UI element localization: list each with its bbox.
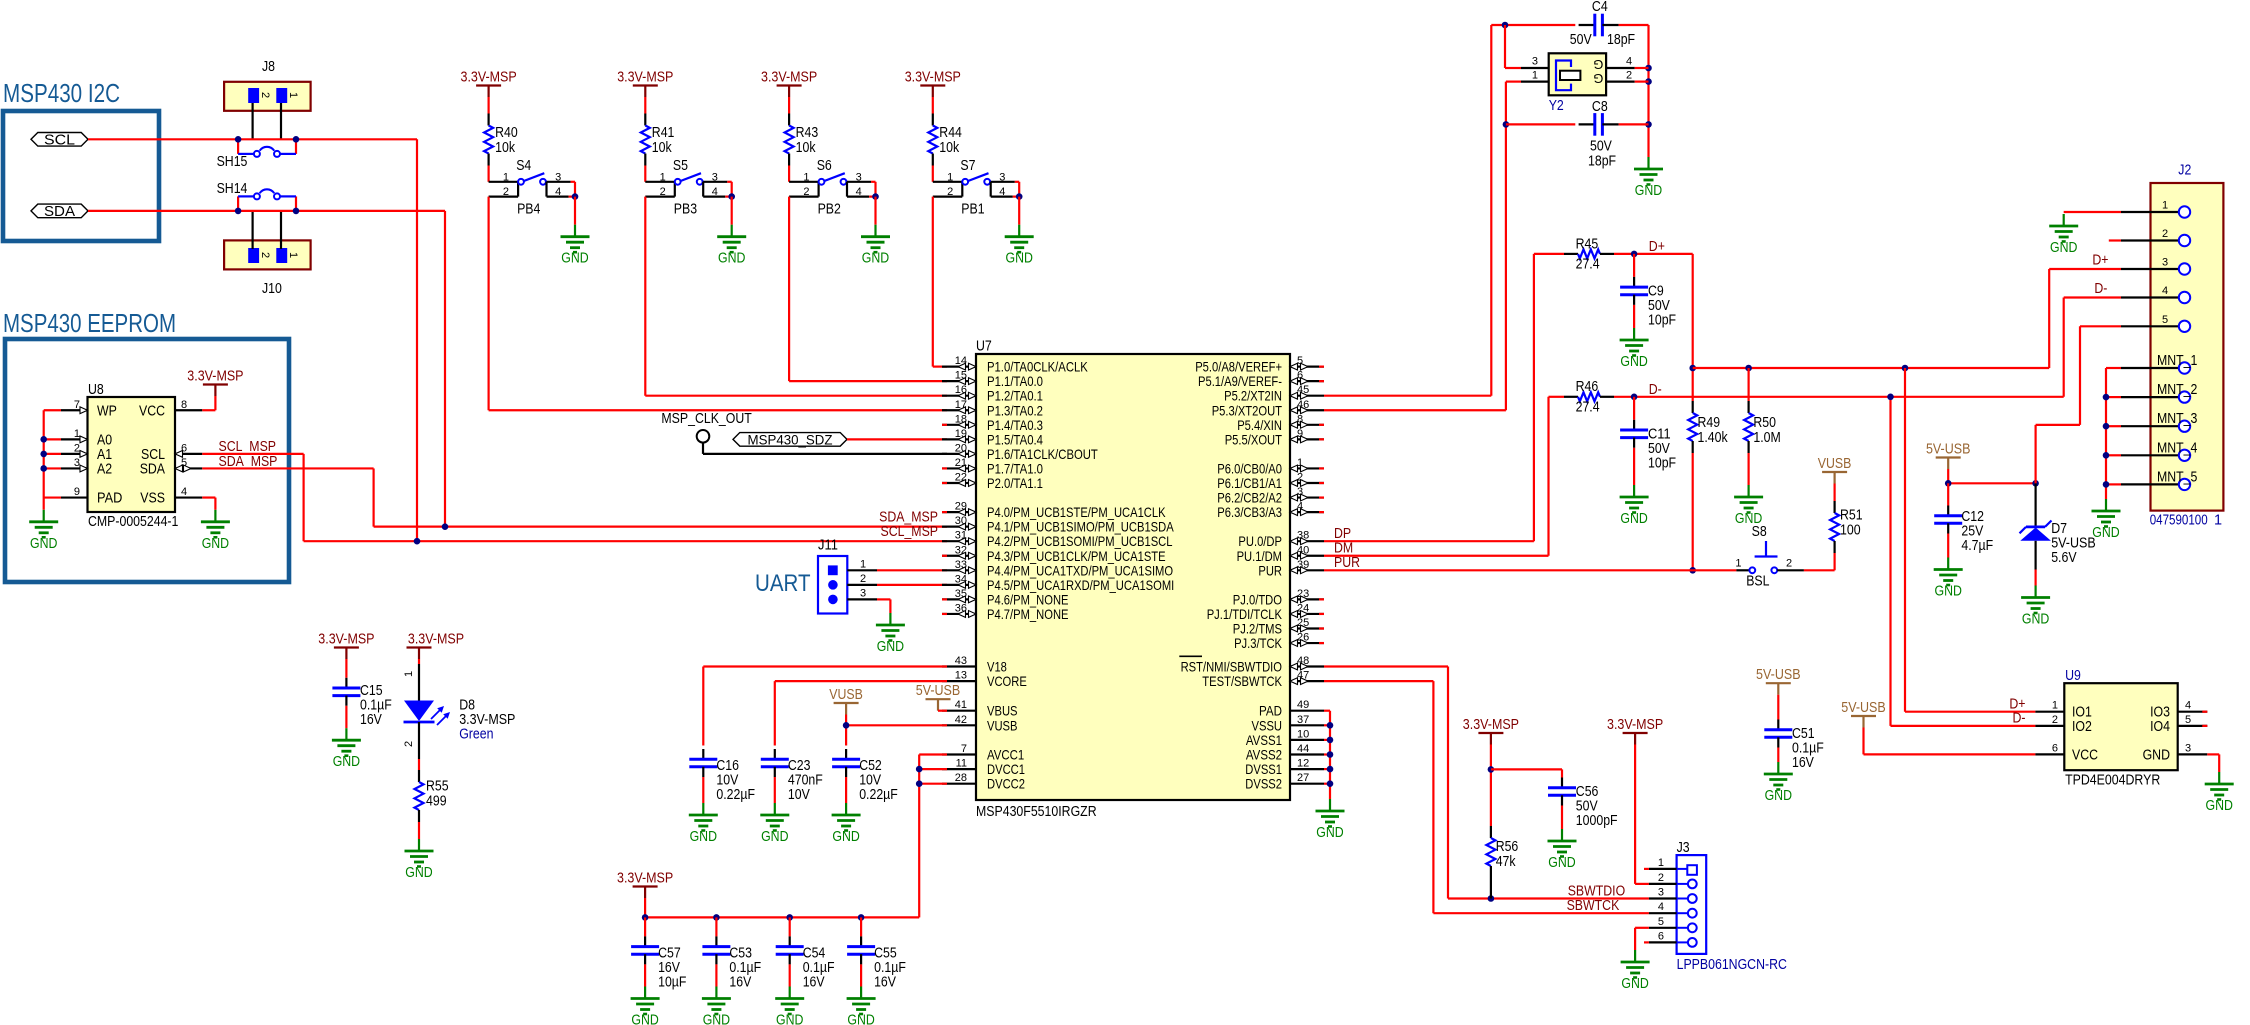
junction VSSU <box>1327 722 1334 729</box>
power 3.3V-MSP at R44 <box>920 84 945 86</box>
shunt SH14 <box>217 181 296 211</box>
svg-text:C11: C11 <box>1648 426 1671 442</box>
junction rail C57 <box>642 914 649 921</box>
wire SBWTDIO net <box>1324 665 1448 667</box>
ground U9 <box>2218 772 2220 784</box>
switch S5 pushbutton PB3 <box>645 158 735 217</box>
svg-text:3.3V-MSP: 3.3V-MSP <box>187 369 243 385</box>
wire R50 gnd <box>1747 453 1749 485</box>
wire VSS rail <box>1324 711 1330 799</box>
svg-text:D+: D+ <box>2092 253 2108 269</box>
wire R41 to switch <box>644 166 646 182</box>
svg-text:6: 6 <box>2052 742 2058 754</box>
svg-text:GND: GND <box>1620 511 1647 527</box>
svg-text:5V-USB: 5V-USB <box>1841 700 1886 716</box>
capacitor C9 10pF <box>1620 254 1676 329</box>
wire C56 gnd <box>1561 806 1563 830</box>
svg-text:12: 12 <box>1297 758 1309 770</box>
wire C8 right <box>1619 123 1649 125</box>
svg-text:GND: GND <box>1935 584 1962 600</box>
junction rail C53 <box>713 914 720 921</box>
IC U8 EEPROM <box>61 382 202 530</box>
svg-text:1: 1 <box>74 428 80 440</box>
svg-text:R50: R50 <box>1753 415 1776 431</box>
junction C56 <box>1488 766 1495 773</box>
EEPROM section box <box>5 339 289 582</box>
svg-text:SH15: SH15 <box>217 154 248 170</box>
svg-text:16V: 16V <box>658 960 680 976</box>
wire D8 to R55 <box>418 759 420 770</box>
wire 5V-USB bus <box>1947 469 1949 483</box>
svg-text:7: 7 <box>74 399 80 411</box>
svg-text:10µF: 10µF <box>658 975 686 991</box>
svg-text:PB1: PB1 <box>961 201 984 217</box>
ground C9 <box>1633 328 1635 340</box>
svg-text:G: G <box>1593 71 1603 86</box>
svg-text:50V: 50V <box>1648 298 1670 314</box>
svg-text:S8: S8 <box>1752 524 1767 540</box>
wire AVCC DVCC rail <box>919 753 947 755</box>
junction R56 SBWTDIO <box>1488 895 1495 902</box>
svg-text:1: 1 <box>1532 70 1538 82</box>
power 3.3V-MSP at D8 <box>407 646 432 648</box>
capacitor C53 <box>702 936 761 990</box>
svg-text:C54: C54 <box>803 946 826 962</box>
svg-text:3: 3 <box>555 171 561 183</box>
wire J2 pin3 D+ <box>2049 268 2121 270</box>
svg-text:GND: GND <box>1006 251 1033 267</box>
svg-text:MNT_2: MNT_2 <box>2157 382 2197 398</box>
svg-text:16V: 16V <box>874 975 896 991</box>
svg-text:R43: R43 <box>796 125 819 141</box>
junction PUR <box>1689 567 1696 574</box>
ground U8 left <box>43 510 45 522</box>
svg-text:5: 5 <box>2185 714 2191 726</box>
svg-text:7: 7 <box>961 743 967 755</box>
J10 pin wires <box>252 211 254 249</box>
svg-text:44: 44 <box>1297 743 1309 755</box>
wire XT2OUT to crystal <box>1324 409 1506 411</box>
svg-text:WP: WP <box>97 403 117 419</box>
svg-text:C12: C12 <box>1961 509 1984 525</box>
LED D8 green <box>403 659 515 759</box>
wire R44 top <box>932 97 934 114</box>
ground C56 <box>1561 829 1563 841</box>
svg-text:IO4: IO4 <box>2150 719 2170 735</box>
wire U8 SCL to U7 <box>202 453 303 455</box>
svg-text:GND: GND <box>2092 525 2119 541</box>
I2C section box <box>3 111 159 241</box>
junction MNT_2 <box>2103 394 2110 401</box>
svg-text:GND: GND <box>2206 798 2233 814</box>
svg-text:1: 1 <box>2162 200 2168 212</box>
svg-text:VSSU: VSSU <box>1252 717 1283 733</box>
wire S7 to ground <box>1018 197 1020 225</box>
svg-text:TPD4E004DRYR: TPD4E004DRYR <box>2065 773 2160 789</box>
junction MNT_3 <box>2103 423 2110 430</box>
svg-text:10V: 10V <box>788 787 810 803</box>
svg-text:GND: GND <box>761 829 788 845</box>
svg-text:5: 5 <box>1658 916 1664 928</box>
svg-text:R45: R45 <box>1576 236 1599 252</box>
ground C53 <box>715 987 717 999</box>
wire PB1 output <box>932 197 934 367</box>
ground J3 <box>1634 950 1636 962</box>
junction SDA b <box>293 208 300 215</box>
wire PB2 output <box>788 197 790 382</box>
junction SCL_MSP <box>414 538 421 545</box>
svg-text:C9: C9 <box>1648 284 1664 300</box>
svg-text:MNT_1: MNT_1 <box>2157 353 2197 369</box>
svg-text:25V: 25V <box>1961 524 1983 540</box>
capacitor C12 4.7uF <box>1934 483 1993 554</box>
wire 5V-USB to VBUS <box>938 710 947 712</box>
power VUSB at C52 <box>834 702 859 704</box>
wire C55 gnd <box>860 964 862 986</box>
wire 3.3V-MSP to rail <box>644 898 646 917</box>
resistor R56 47k <box>1486 826 1518 878</box>
svg-text:CMP-0005244-1: CMP-0005244-1 <box>88 514 178 530</box>
svg-text:2: 2 <box>403 741 415 747</box>
wire XT2IN to crystal <box>1324 395 1491 397</box>
resistor R44 10k <box>928 114 962 166</box>
svg-text:10V: 10V <box>859 773 881 789</box>
svg-text:GND: GND <box>1316 825 1343 841</box>
svg-text:4: 4 <box>1626 56 1632 68</box>
svg-text:5: 5 <box>2162 314 2168 326</box>
svg-text:2: 2 <box>259 92 271 98</box>
svg-text:Green: Green <box>459 727 493 743</box>
wire J11 pin3 gnd <box>877 598 890 600</box>
svg-text:4: 4 <box>1658 901 1664 913</box>
svg-text:4: 4 <box>712 186 718 198</box>
svg-text:1: 1 <box>803 171 809 183</box>
junction AVSS2 <box>1327 751 1334 758</box>
wire V18 to C16 <box>703 665 947 667</box>
U8 ground rail wires <box>44 409 61 411</box>
svg-text:50V: 50V <box>1590 139 1612 155</box>
IC U7 MSP430F5510IRGZR <box>942 339 1324 821</box>
svg-text:0.22µF: 0.22µF <box>716 787 755 803</box>
svg-text:2: 2 <box>1786 557 1792 569</box>
resistor R50 1.0M <box>1744 368 1781 453</box>
wire J2 pin4 D- <box>2064 296 2121 298</box>
svg-text:DVCC1: DVCC1 <box>987 761 1025 777</box>
svg-text:VCC: VCC <box>2072 747 2098 763</box>
svg-text:11: 11 <box>956 758 967 770</box>
svg-text:1: 1 <box>1658 857 1664 869</box>
svg-text:U9: U9 <box>2065 668 2081 684</box>
connector J10 <box>224 240 311 297</box>
ground J2 pin1 <box>2063 214 2065 226</box>
svg-text:1: 1 <box>287 92 299 98</box>
svg-text:R44: R44 <box>939 125 962 141</box>
J8 pin wires <box>252 103 254 139</box>
svg-text:3: 3 <box>999 171 1005 183</box>
wire C15 gnd <box>345 706 347 728</box>
svg-text:8: 8 <box>181 399 187 411</box>
wire R55 gnd <box>418 822 420 839</box>
junction DVSS1 <box>1327 766 1334 773</box>
power 3.3V-MSP at R56 <box>1478 732 1503 734</box>
wire 3.3V to J3 pin2 <box>1634 745 1636 884</box>
svg-text:GND: GND <box>1548 855 1575 871</box>
svg-text:0.1µF: 0.1µF <box>729 960 761 976</box>
wire C51 gnd <box>1777 748 1779 763</box>
svg-text:16V: 16V <box>1792 755 1814 771</box>
ground C55 <box>860 987 862 999</box>
capacitor C16 0.22uF <box>689 749 755 803</box>
svg-text:10k: 10k <box>939 140 960 156</box>
svg-text:A2: A2 <box>97 461 112 477</box>
svg-text:499: 499 <box>426 794 447 810</box>
wire C12 gnd <box>1947 534 1949 558</box>
svg-text:10k: 10k <box>652 140 673 156</box>
svg-text:C52: C52 <box>859 758 882 774</box>
svg-text:1: 1 <box>2214 513 2222 529</box>
junction DVSS2 <box>1327 780 1334 787</box>
svg-text:4: 4 <box>2162 285 2168 297</box>
svg-text:LPPB061NGCN-RC: LPPB061NGCN-RC <box>1677 957 1787 973</box>
no-connect flag MSP_CLK_OUT <box>661 411 947 454</box>
wire C11 gnd <box>1633 448 1635 485</box>
svg-text:P2.0/TA1.1: P2.0/TA1.1 <box>987 475 1043 491</box>
svg-text:S5: S5 <box>673 158 688 174</box>
wire J3 pin5 gnd <box>1635 927 1649 929</box>
svg-text:U8: U8 <box>88 382 104 398</box>
connector J11 UART <box>818 538 877 614</box>
svg-text:GND: GND <box>405 865 432 881</box>
svg-text:GND: GND <box>847 1013 874 1025</box>
svg-text:18pF: 18pF <box>1607 32 1635 48</box>
svg-text:MSP430 I2C: MSP430 I2C <box>3 80 120 108</box>
svg-text:SBWTCK: SBWTCK <box>1567 898 1620 914</box>
svg-text:1: 1 <box>860 558 866 570</box>
svg-text:16V: 16V <box>729 975 751 991</box>
svg-text:2: 2 <box>860 573 866 585</box>
svg-text:2: 2 <box>259 252 271 258</box>
capacitor C11 10pF <box>1620 397 1676 472</box>
ground crystal <box>1647 157 1649 169</box>
svg-text:3: 3 <box>1532 56 1538 68</box>
wire C15 top <box>345 659 347 678</box>
svg-text:GND: GND <box>30 536 57 552</box>
wire J11 pin1 to U7 <box>877 569 947 571</box>
wire C57 gnd <box>644 964 646 986</box>
wire PUR net <box>1324 569 1736 571</box>
junction DVCC2 <box>916 780 923 787</box>
svg-text:5V-USB: 5V-USB <box>1926 442 1971 458</box>
wire 5V-USB to U9 VCC <box>1862 728 1864 755</box>
svg-text:DVSS1: DVSS1 <box>1245 761 1282 777</box>
power 5V-USB at U9 <box>1851 715 1876 717</box>
svg-text:D7: D7 <box>2051 521 2067 537</box>
ground C52 <box>845 803 847 815</box>
wire D7 gnd <box>2034 570 2036 586</box>
svg-text:50V: 50V <box>1570 32 1592 48</box>
svg-text:GND: GND <box>202 536 229 552</box>
svg-text:PUR: PUR <box>1334 555 1360 571</box>
svg-text:10k: 10k <box>796 140 817 156</box>
svg-text:28: 28 <box>955 772 967 784</box>
wire R43 to switch <box>788 166 790 182</box>
svg-text:27.4: 27.4 <box>1576 399 1600 415</box>
svg-text:50V: 50V <box>1576 799 1598 815</box>
wire C53 gnd <box>715 964 717 986</box>
junction DVCC1 <box>916 766 923 773</box>
svg-text:G: G <box>1593 57 1603 72</box>
junction D+ bus <box>1689 365 1696 372</box>
svg-text:U7: U7 <box>976 339 992 355</box>
port flag SDA <box>31 204 88 218</box>
svg-text:1: 1 <box>660 171 666 183</box>
svg-text:AVCC1: AVCC1 <box>987 747 1024 763</box>
svg-text:4: 4 <box>856 186 862 198</box>
switch S7 pushbutton PB1 <box>933 158 1023 217</box>
svg-text:R51: R51 <box>1840 508 1863 524</box>
ground J11 <box>889 613 891 625</box>
capacitor C4 18pF <box>1570 0 1635 48</box>
svg-text:MSP430_SDZ: MSP430_SDZ <box>748 431 833 447</box>
IC U9 TPD4E004DRYR <box>2035 668 2207 789</box>
ground R50 <box>1747 485 1749 497</box>
svg-text:PUR: PUR <box>1258 562 1282 578</box>
capacitor C54 <box>776 936 835 990</box>
svg-text:13: 13 <box>955 670 967 682</box>
junction crystal pin2 <box>1645 78 1652 85</box>
svg-text:C15: C15 <box>360 683 383 699</box>
svg-text:4: 4 <box>181 486 187 498</box>
switch S4 pushbutton PB4 <box>489 158 579 217</box>
svg-text:J10: J10 <box>262 281 282 297</box>
ground C11 <box>1633 485 1635 497</box>
svg-text:2: 2 <box>74 442 80 454</box>
svg-text:1.40k: 1.40k <box>1698 430 1729 446</box>
svg-text:PB3: PB3 <box>674 201 697 217</box>
junction R50 top <box>1745 365 1752 372</box>
wire J2 pin2 stub <box>2109 239 2121 241</box>
power 5V-USB at VBUS <box>926 698 951 700</box>
svg-text:C8: C8 <box>1592 99 1608 115</box>
svg-text:DVSS2: DVSS2 <box>1245 776 1282 792</box>
svg-text:3: 3 <box>74 457 80 469</box>
ground C54 <box>789 987 791 999</box>
wire R40 to switch <box>488 166 490 182</box>
svg-text:9: 9 <box>74 486 80 498</box>
junction MNT_4 <box>2103 452 2110 459</box>
junction SDA_MSP <box>442 523 449 530</box>
svg-text:GND: GND <box>1621 976 1648 992</box>
svg-text:C51: C51 <box>1792 726 1815 742</box>
wire PB3 output <box>644 197 646 396</box>
svg-text:GND: GND <box>832 829 859 845</box>
svg-text:P4.7/PM_NONE: P4.7/PM_NONE <box>987 606 1069 622</box>
junction D+ to U9 <box>1902 365 1909 372</box>
wire R46 to D- <box>1614 396 2064 398</box>
J3 pin nubs <box>1644 868 1649 870</box>
svg-text:J11: J11 <box>818 538 838 554</box>
junction U8 A1 <box>40 451 47 458</box>
wire R51 to VUSB <box>1833 484 1835 502</box>
svg-text:10: 10 <box>1297 728 1309 740</box>
svg-text:S7: S7 <box>960 158 975 174</box>
wire C54 gnd <box>789 964 791 986</box>
wire SDA net <box>88 210 445 212</box>
capacitor C23 470nF <box>761 749 823 803</box>
svg-text:J2: J2 <box>2178 163 2191 179</box>
wire D+ to U9 <box>1904 368 1906 712</box>
svg-text:2: 2 <box>2162 228 2168 240</box>
svg-text:MNT_5: MNT_5 <box>2157 469 2197 485</box>
svg-text:4.7µF: 4.7µF <box>1961 538 1993 554</box>
svg-text:MNT_3: MNT_3 <box>2157 411 2197 427</box>
resistor R49 1.40k <box>1688 401 1728 453</box>
svg-text:047590100: 047590100 <box>2150 513 2208 529</box>
svg-text:GND: GND <box>561 251 588 267</box>
junction AVSS1 <box>1327 737 1334 744</box>
wire R49 to PUR <box>1692 453 1694 570</box>
svg-text:AVSS2: AVSS2 <box>1246 747 1282 763</box>
junction crystal pin4 <box>1645 65 1652 72</box>
svg-text:1: 1 <box>503 171 509 183</box>
svg-text:C55: C55 <box>874 946 897 962</box>
wire U9 gnd <box>2207 753 2219 755</box>
svg-text:2: 2 <box>503 186 509 198</box>
svg-text:J8: J8 <box>262 59 275 75</box>
svg-text:3.3V-MSP: 3.3V-MSP <box>408 632 464 648</box>
capacitor C8 18pF <box>1579 99 1619 169</box>
wire VCORE to C23 <box>775 680 947 682</box>
wire rail to C54 <box>789 917 791 936</box>
power 3.3V-MSP bottom rail <box>633 885 658 887</box>
wire J2 MNT rail <box>2106 368 2121 499</box>
svg-text:18pF: 18pF <box>1588 153 1616 169</box>
svg-text:C16: C16 <box>716 758 739 774</box>
shunt SH15 <box>217 139 296 170</box>
svg-text:MSP430F5510IRGZR: MSP430F5510IRGZR <box>976 804 1097 820</box>
svg-text:5V-USB: 5V-USB <box>1756 667 1801 683</box>
wire R40 top <box>488 97 490 114</box>
wire C16 gnd <box>702 777 704 803</box>
wire SBWTCK net <box>1324 680 1433 682</box>
wire R43 top <box>788 97 790 114</box>
svg-text:VCC: VCC <box>139 403 165 419</box>
svg-text:10pF: 10pF <box>1648 313 1676 329</box>
svg-text:VSS: VSS <box>140 491 165 507</box>
wire D+ bus <box>1693 367 2050 369</box>
svg-text:GND: GND <box>690 829 717 845</box>
svg-text:470nF: 470nF <box>788 773 823 789</box>
svg-text:D+: D+ <box>1649 239 1665 255</box>
svg-text:D-: D- <box>2013 711 2026 727</box>
svg-text:VUSB: VUSB <box>1818 456 1852 472</box>
power 5V-USB at C51 <box>1766 682 1791 684</box>
junction U8 A0 <box>40 436 47 443</box>
svg-text:Y2: Y2 <box>1549 98 1564 114</box>
U7 unconnected pin nubs <box>942 367 1324 643</box>
svg-text:P6.3/CB3/A3: P6.3/CB3/A3 <box>1217 504 1282 520</box>
svg-text:1: 1 <box>287 252 299 258</box>
wire U8 VCC <box>214 396 216 410</box>
svg-text:GND: GND <box>718 251 745 267</box>
wire VUSB node <box>845 715 847 746</box>
power 3.3V-MSP at J3 <box>1623 732 1648 734</box>
svg-text:SCL: SCL <box>44 131 75 148</box>
svg-text:1: 1 <box>2052 700 2058 712</box>
power 5V-USB at C12 <box>1936 456 1961 458</box>
capacitor C15 0.1uF <box>332 678 392 728</box>
wire R41 top <box>644 97 646 114</box>
